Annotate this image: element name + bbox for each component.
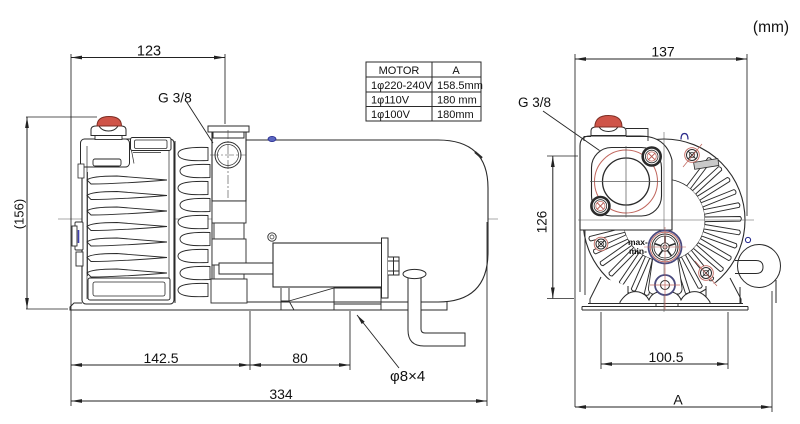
svg-text:100.5: 100.5 (648, 349, 683, 365)
svg-text:φ8×4: φ8×4 (390, 368, 425, 385)
dim A ext right (771, 291, 773, 412)
dim 126 arrows (551, 156, 555, 167)
drain plug navy ring (655, 275, 675, 295)
svg-text:A: A (452, 65, 460, 77)
terminal box lower step (281, 288, 381, 310)
dim 123 ext right (224, 54, 226, 124)
sight glass outer navy (649, 231, 682, 264)
motor left flange line (239, 141, 241, 301)
svg-text:1φ220-240V: 1φ220-240V (371, 80, 433, 92)
pipe top cap (403, 269, 426, 278)
base plate (70, 302, 447, 310)
dim 156 ext top (26, 116, 97, 118)
dim 100.5 arrows (601, 362, 612, 366)
dim 80 arrows (250, 363, 261, 367)
body screw left (594, 237, 608, 251)
nameplate bar (694, 159, 719, 170)
terminal box (273, 243, 382, 287)
dim 80 line (250, 364, 350, 366)
svg-text:min-: min- (629, 246, 647, 256)
motor housing (234, 140, 488, 302)
sight glass rim (652, 234, 678, 260)
dim A arrows (575, 405, 586, 409)
dim 123 line (71, 57, 225, 59)
blue dome marker (681, 134, 688, 140)
flange body left edge (580, 230, 585, 295)
body screw right-bottom (699, 266, 714, 281)
drain boss blue ring (78, 230, 80, 243)
front cap plate (584, 129, 648, 142)
left drain boss (72, 222, 83, 266)
front cap red dome (595, 116, 622, 128)
inlet flange top (208, 126, 249, 138)
svg-text:A: A (673, 392, 683, 408)
motor seam mark (475, 152, 482, 158)
front housing circle (583, 139, 745, 301)
dim 126 ext bottom (547, 298, 574, 300)
pump module fins (178, 147, 210, 296)
svg-text:180mm: 180mm (437, 109, 474, 121)
blue vent dot on motor (268, 136, 276, 141)
drain red crosshair (650, 268, 680, 310)
front handle band (740, 280, 776, 303)
dim 137 ext right (746, 54, 748, 216)
dim 156 line (26, 117, 28, 309)
dim 123 ext left (70, 54, 72, 406)
svg-text:126: 126 (535, 211, 550, 234)
fin support line (87, 172, 89, 276)
dim 334 line (71, 400, 487, 402)
oil sight window (131, 138, 172, 164)
leader G3/8 right (543, 111, 600, 151)
oil case bottom window (88, 278, 170, 300)
gas ballast pipe (408, 276, 465, 346)
dim 137 ext left (574, 54, 576, 407)
svg-text:158.5mm: 158.5mm (437, 80, 483, 92)
svg-text:180 mm: 180 mm (437, 95, 477, 107)
svg-text:(156): (156) (12, 199, 27, 229)
module frame lines (175, 137, 212, 303)
svg-text:80: 80 (292, 350, 308, 366)
motor table frame (366, 62, 481, 121)
flange circle red (595, 150, 658, 213)
terminal box screw (268, 233, 276, 241)
dim 142.5 arrows (71, 363, 82, 367)
dim 334 ext right (486, 222, 488, 406)
dim 334 arrows (71, 399, 82, 403)
leader phi8x4 (357, 315, 399, 368)
terminal box flange plate (382, 238, 389, 298)
dim A line (575, 406, 772, 408)
lower step base line (334, 309, 381, 311)
dim 100.5 line (601, 363, 728, 365)
svg-text:1φ110V: 1φ110V (371, 95, 410, 107)
front centerlines (578, 132, 754, 312)
inlet flange block front (580, 136, 672, 230)
dim 156 ext bottom (26, 308, 68, 310)
front handle disc (738, 245, 781, 288)
dim 100.5 ext left (600, 312, 602, 369)
front radial fins (587, 158, 742, 298)
svg-text:123: 123 (137, 44, 161, 60)
front inner ring arc (623, 179, 705, 261)
dim 142.5 line (71, 364, 250, 366)
flange circle bore (603, 158, 650, 205)
pump stage stack (211, 201, 247, 303)
front base bar (582, 304, 748, 311)
drain plug inner (661, 281, 670, 290)
oil filler cap red dome (97, 117, 122, 127)
front feet (590, 277, 741, 304)
front base casting (620, 292, 710, 304)
oil case header box (81, 139, 130, 167)
flange bolt top-right (643, 148, 661, 166)
svg-text:G 3/8: G 3/8 (518, 95, 551, 110)
oil case step plate (93, 159, 121, 166)
left top step (78, 164, 84, 178)
shaft coupling bar (219, 263, 275, 274)
dim 137 line (575, 58, 747, 60)
svg-text:1φ100V: 1φ100V (371, 109, 411, 121)
svg-text:(mm): (mm) (753, 19, 789, 36)
inlet port circle (215, 142, 241, 168)
dim ext 80 right (349, 311, 351, 370)
flange crosshair (590, 146, 662, 218)
oil case body (82, 139, 174, 304)
inlet port inner circle (218, 145, 239, 166)
front drain boss (648, 256, 682, 294)
oil case inner edge (87, 146, 169, 299)
dim 100.5 ext right (727, 312, 729, 369)
sight glass red ring (650, 232, 680, 262)
dim 137 arrows (575, 57, 586, 61)
svg-text:334: 334 (269, 386, 293, 402)
svg-text:137: 137 (651, 44, 675, 60)
front cap wing nut (591, 127, 626, 136)
dim 123 arrows (71, 56, 82, 60)
front handle slot (735, 261, 763, 274)
oil filler cap base band (95, 135, 122, 140)
inlet port block (212, 131, 246, 201)
flange bolt bottom-left (591, 197, 609, 215)
svg-text:142.5: 142.5 (143, 350, 178, 366)
dim 156 arrows (25, 117, 29, 128)
sight glass spokes (654, 236, 676, 258)
cable gland nut (388, 257, 399, 275)
leader G3/8 left (186, 101, 213, 143)
centerline left view (58, 218, 498, 220)
oil filler cap wing nut (91, 126, 126, 136)
svg-text:MOTOR: MOTOR (379, 65, 420, 77)
flange square plate (592, 148, 662, 217)
oil case cooling fins (87, 176, 167, 184)
blue dot right side (745, 237, 750, 242)
body screw top (685, 148, 700, 163)
sight glass red crosshair (644, 227, 686, 268)
dim 126 ext top (547, 155, 578, 157)
dim ext 142.5 mid (249, 311, 251, 370)
port crosshair (210, 130, 246, 198)
dim 126 line (552, 156, 554, 299)
